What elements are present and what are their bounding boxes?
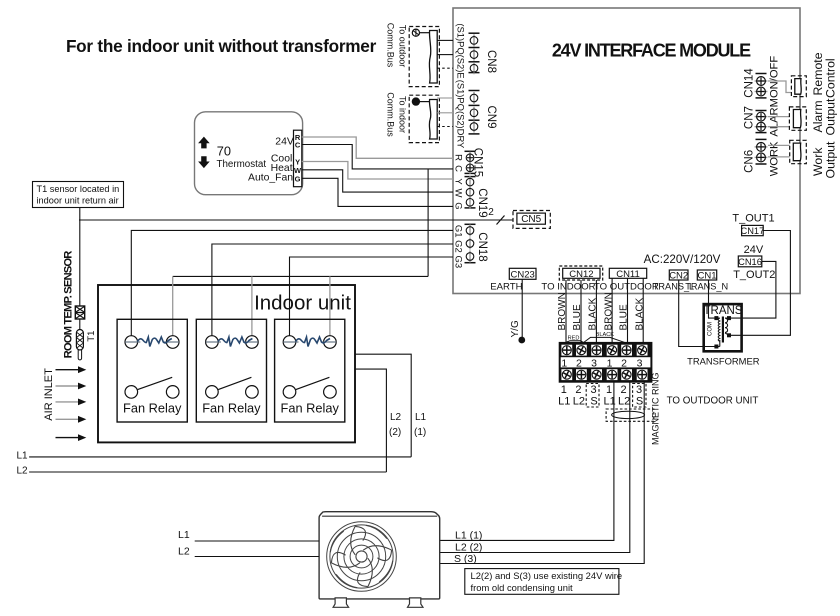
svg-text:Output: Output [824,141,838,178]
dashed box S outdoor [633,384,646,408]
svg-text:Comm.Bus: Comm.Bus [386,92,396,137]
connector CN2 box [669,270,688,280]
svg-text:from old condensing unit: from old condensing unit [471,582,574,593]
svg-text:L1: L1 [17,451,29,462]
svg-text:MAGNETIC RING: MAGNETIC RING [651,372,661,445]
svg-text:24V: 24V [744,244,764,256]
svg-text:S (3): S (3) [454,553,477,565]
transformer primary coil [718,318,720,341]
svg-text:L2: L2 [17,466,29,477]
wire coil1 common drop [172,276,174,335]
24V interface module U1 box [453,8,800,294]
wires CN12 CN11 to terminal block TB1 [565,280,567,343]
svg-text:L2: L2 [390,412,402,423]
wire S to outdoor run [440,382,645,564]
connector CN8 [456,23,480,78]
wire C [302,145,453,169]
connector CN17 box [742,225,764,235]
wire relay common bus [173,275,428,277]
svg-text:CN17: CN17 [741,226,765,236]
svg-text:Indoor unit: Indoor unit [254,292,351,315]
transformer T1 box [704,304,742,351]
svg-text:RED: RED [568,336,580,342]
CN5 box [517,213,546,224]
svg-text:TRANSFORMER: TRANSFORMER [687,356,760,367]
terminal block TB1 [560,343,652,382]
thermostat terminal strip [294,130,302,187]
svg-text:G: G [453,202,464,209]
wire 2-core to CN5 [79,219,513,221]
wire T1 sensor lead [79,208,81,307]
relay K2 coil [206,336,259,349]
svg-text:L2: L2 [573,396,585,408]
transformer secondary coil [725,318,728,332]
earth wire CN23 to Y/G [521,279,523,337]
fan grille rings [327,522,397,592]
wire CN1 to transformer primary [709,280,715,318]
work output plug P5 dashed box [790,140,807,163]
Y/G terminal dot [518,337,525,344]
connector CN14 [755,74,768,98]
svg-text:3: 3 [591,384,597,396]
air inlet arrow 2 [56,385,79,387]
svg-text:CN14: CN14 [744,68,756,98]
magnetic ring dashed box [606,409,654,421]
transformer terminals [714,316,718,320]
svg-text:L1 (1): L1 (1) [455,530,482,542]
svg-text:To outdoor: To outdoor [398,25,408,68]
T1 note box [33,182,124,208]
CN7 plug wires [768,116,789,118]
svg-text:24V: 24V [275,136,294,147]
wire L2 to outdoor run [440,382,630,553]
connector CN11 box [609,268,646,278]
T1 sensor capsule [76,330,83,351]
CN8 plug wires [437,39,453,41]
svg-text:CN12: CN12 [569,269,593,280]
magnetic ring [612,411,645,418]
jumper RED [567,341,584,343]
svg-text:Control: Control [824,58,838,98]
svg-text:CN5: CN5 [521,214,541,225]
T1 sensor probe tip [78,350,81,360]
connector CN5 dashed box [513,211,550,229]
connector CN7 [755,111,768,133]
svg-text:T1: T1 [86,331,97,342]
fan relay K3 box [275,319,345,422]
wire G2 [212,244,453,336]
svg-text:BLACK: BLACK [634,297,645,330]
wire C branch to relay common [427,169,429,277]
CN9 plug wires [437,97,453,99]
svg-text:L2: L2 [178,546,190,558]
thermostat TH1 body [195,112,303,195]
wire R [302,137,453,158]
outdoor unit top edge [322,515,437,517]
wire CN17 to transformer secondary [731,231,791,336]
svg-text:BROWN: BROWN [557,292,568,330]
svg-text:R: R [453,154,464,161]
svg-text:3: 3 [591,357,597,369]
wire Y [302,162,453,180]
svg-text:70: 70 [217,144,231,159]
svg-text:Auto_Fan: Auto_Fan [248,173,293,184]
svg-text:ALARMON/OFF: ALARMON/OFF [769,56,781,137]
svg-text:For the indoor unit without t: For the indoor unit without transformer [66,36,377,56]
svg-text:T_OUT2: T_OUT2 [733,269,775,281]
svg-text:(2): (2) [389,427,401,438]
svg-text:2: 2 [575,384,581,396]
svg-text:1: 1 [561,357,567,369]
svg-text:BLUE: BLUE [619,304,630,330]
svg-text:CN8: CN8 [485,50,497,73]
svg-text:C: C [295,140,301,149]
connector CN15 [465,151,476,174]
svg-text:To indoor: To indoor [398,96,408,133]
svg-text:(S1)PQ(S2)DRY: (S1)PQ(S2)DRY [456,80,467,149]
svg-text:BLACK: BLACK [588,297,599,330]
svg-text:1: 1 [606,384,612,396]
outdoor unit foot left [333,598,349,607]
svg-text:TRANS: TRANS [704,305,743,317]
outdoor unit body [319,512,440,599]
svg-text:AC:220V/120V: AC:220V/120V [644,253,721,266]
plug P3 body [795,79,801,95]
svg-text:3: 3 [637,357,643,369]
wire L1 to outdoor [195,540,319,542]
svg-text:TO OUTDOOR UNIT: TO OUTDOOR UNIT [667,395,759,406]
svg-text:2: 2 [576,357,582,369]
connector CN18 [465,224,476,262]
svg-text:T_OUT1: T_OUT1 [732,213,774,225]
relay K1 contact [125,377,179,398]
svg-text:G: G [295,174,301,183]
dashed box S indoor [586,384,599,408]
svg-text:CN16: CN16 [738,257,762,267]
svg-text:1: 1 [607,357,613,369]
svg-text:CN7: CN7 [744,106,756,129]
plug P1 body [429,31,437,84]
svg-text:1: 1 [561,384,567,396]
indoor unit box [98,285,355,442]
connector CN1 box [697,270,716,280]
wire CN16 to transformer secondary [731,261,776,318]
svg-text:CN6: CN6 [744,150,756,173]
fan relay K2 box [196,319,266,422]
svg-text:Comm.Bus: Comm.Bus [386,23,396,68]
svg-text:T1 sensor located in: T1 sensor located in [37,184,120,194]
svg-text:2: 2 [488,207,494,218]
thermostat down arrow [198,156,210,168]
svg-text:Y/G: Y/G [510,320,521,337]
wire L1 to outdoor run [440,382,614,541]
relay K3 coil [283,336,336,349]
svg-text:L1: L1 [558,396,570,408]
svg-text:indoor unit return air: indoor unit return air [37,196,119,206]
svg-text:AIR INLET: AIR INLET [43,368,55,421]
svg-text:(S1)PQ(S2)E: (S1)PQ(S2)E [456,23,467,78]
svg-text:Y: Y [453,178,464,185]
relay K1 coil [125,336,179,349]
To outdoor Comm.Bus plug P1 dashed box [409,27,439,87]
plug P1 screw [412,29,419,36]
svg-text:S: S [590,396,597,408]
svg-text:CN11: CN11 [616,269,640,280]
wire L2 to outdoor [195,556,319,558]
svg-text:CN19: CN19 [476,188,488,217]
svg-text:2: 2 [621,357,627,369]
wire relay out L1 [355,354,411,457]
transformer terminal links [716,317,719,319]
relay K3 contact [283,377,336,398]
plug P2 body [429,100,437,140]
svg-text:COM: COM [708,322,714,336]
note box: existing 24V wire [465,569,619,595]
svg-text:TO OUTDOOR: TO OUTDOOR [594,281,659,292]
svg-text:EARTH: EARTH [490,281,522,292]
svg-text:2: 2 [621,384,627,396]
svg-text:TRANS_N: TRANS_N [685,281,728,291]
air inlet arrow 1 [56,369,79,371]
jumper BLACK [584,337,626,342]
svg-text:CN15: CN15 [472,148,484,177]
wire L2 bus [29,471,386,473]
outdoor unit foot right [408,598,424,607]
To indoor Comm.Bus plug P2 dashed box [409,95,439,142]
svg-text:G1 G2 G3: G1 G2 G3 [453,225,464,268]
transformer core [722,317,724,343]
svg-text:24V INTERFACE MODULE: 24V INTERFACE MODULE [552,41,751,61]
connector CN9 [469,91,480,134]
svg-text:CN18: CN18 [476,232,488,261]
T1 sensor connector [75,306,84,319]
svg-text:WORK: WORK [769,141,781,176]
connector CN12 dashed box [559,266,602,280]
svg-text:Output: Output [824,98,838,135]
wire L1 bus [29,456,411,458]
CN12 box [563,268,600,278]
fan relay K1 box [117,319,187,422]
remote control plug P3 dashed box [791,76,806,97]
svg-text:CN23: CN23 [511,269,535,280]
air inlet arrow 4 [56,418,79,420]
svg-text:L1: L1 [178,529,190,541]
T1 sensor link wire [79,319,81,330]
air inlet arrow 3 [56,401,79,403]
svg-text:CN9: CN9 [485,105,497,128]
connector CN19 [465,176,476,208]
svg-text:C: C [453,165,464,172]
CN14 plug wire [768,81,791,93]
CN6 plug wires [768,144,790,146]
plug P4 body [793,110,801,128]
svg-text:3: 3 [636,384,642,396]
svg-text:CN2: CN2 [669,270,688,281]
svg-text:Fan Relay: Fan Relay [202,400,261,415]
svg-text:L2(2) and S(3) use existing 24: L2(2) and S(3) use existing 24V wire [471,570,623,581]
relay K2 contact [206,377,259,398]
svg-text:BROWN: BROWN [603,292,614,330]
connector CN16 box [738,256,762,267]
svg-text:ROOM TEMP. SENSOR: ROOM TEMP. SENSOR [63,251,75,359]
alarm output plug P4 dashed box [789,107,806,130]
wire coil3 common drop [329,276,331,335]
svg-text:Fan Relay: Fan Relay [281,400,340,415]
svg-text:W: W [453,189,464,198]
svg-text:TO INDOOR: TO INDOOR [541,281,595,292]
air inlet arrow 5 [56,437,79,439]
svg-text:S: S [636,396,643,408]
svg-text:Thermostat: Thermostat [217,159,267,170]
plug P5 body [793,143,801,161]
wire coil2 common drop [251,276,253,335]
svg-text:L2: L2 [618,396,630,408]
wire G [302,178,453,206]
thermostat up arrow [198,137,210,149]
svg-text:Fan Relay: Fan Relay [123,400,182,415]
svg-text:BLUE: BLUE [572,304,583,330]
fan blades [330,525,392,587]
wire G1 [131,230,453,335]
plug P2 screw [412,98,419,105]
connector CN6 [755,139,768,164]
connector CN23 box [509,268,536,279]
wire G3 [290,257,454,336]
svg-text:BLACK: BLACK [596,332,615,338]
wire W [302,170,453,192]
svg-text:(1): (1) [414,427,426,438]
wire count slash [497,216,505,225]
svg-text:CN1: CN1 [697,270,716,281]
wire relay out L2 [355,369,386,472]
svg-text:L1: L1 [415,412,427,423]
wire CN2 to transformer primary [679,280,715,347]
